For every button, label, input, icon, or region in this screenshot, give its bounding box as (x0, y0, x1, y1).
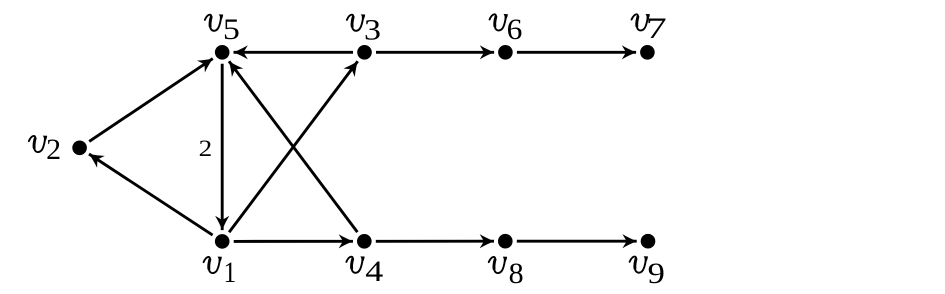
edge v3 to v6 (376, 45, 494, 59)
label v2 (29, 133, 61, 166)
svg-text:5: 5 (223, 12, 240, 46)
edge v5 to v1 (215, 64, 229, 230)
edge v8 to v9 (517, 234, 637, 248)
node v7 (640, 45, 655, 60)
svg-text:2: 2 (46, 133, 61, 166)
label v5 (205, 12, 240, 46)
svg-text:2: 2 (199, 135, 213, 162)
label v1 (204, 256, 237, 289)
label v7 (632, 11, 667, 45)
node v3 (357, 45, 372, 60)
label v6 (490, 13, 523, 46)
edge v4 to v8 (376, 234, 494, 248)
node v9 (641, 234, 656, 249)
edge weight 2 on edge v5 to v1 (199, 135, 213, 162)
label v3 (347, 13, 381, 47)
edge v2 to v5 (89, 53, 217, 142)
edge v4 to v5 (223, 57, 357, 232)
svg-text:4: 4 (365, 255, 383, 288)
edge v1 to v2 (85, 148, 212, 235)
node v8 (498, 234, 513, 249)
svg-text:6: 6 (507, 13, 523, 46)
label v9 (630, 256, 665, 289)
label v8 (489, 257, 524, 290)
node v2 (72, 141, 87, 156)
edge v1 to v4 (234, 234, 353, 248)
svg-text:1: 1 (224, 256, 237, 289)
edge v3 to v5 (234, 45, 354, 59)
node v6 (498, 45, 513, 60)
svg-text:7: 7 (646, 11, 667, 45)
node v5 (215, 45, 230, 60)
node v1 (215, 234, 230, 249)
svg-text:3: 3 (364, 13, 381, 47)
label v4 (346, 255, 383, 288)
svg-text:9: 9 (648, 256, 665, 289)
node v4 (357, 234, 372, 249)
edge v6 to v7 (517, 45, 636, 59)
svg-text:8: 8 (509, 257, 524, 290)
edge v1 to v3 (229, 57, 363, 232)
